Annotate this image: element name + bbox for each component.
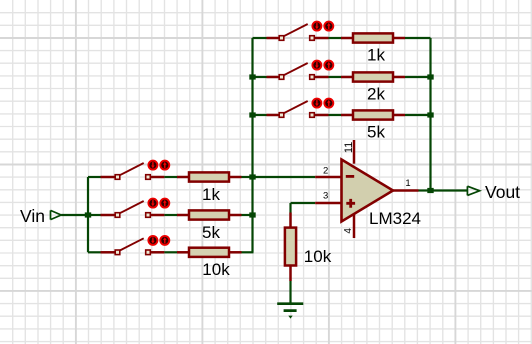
wire: SW-IN3 to R-IN3 <box>164 251 177 253</box>
pin 2 stub of op-amp U1 <box>315 176 341 179</box>
switch SW-FB3: interactive toggle button (down arrow) <box>312 99 321 108</box>
svg-text:1: 1 <box>405 178 410 189</box>
wire: input bus (left vertical) <box>87 177 89 252</box>
svg-text:5k: 5k <box>202 223 220 242</box>
pin: R-FB1 right pin <box>393 37 405 40</box>
pin: R-GND top pin <box>289 213 292 228</box>
switch SW-FB1: contacts <box>279 36 284 41</box>
pin: SW-FB1 left pin <box>267 37 280 40</box>
output terminal Vout <box>467 186 479 195</box>
switch SW-IN1: interactive toggle button (up arrow) <box>160 161 169 170</box>
wire: R-IN1 to summing bus <box>242 176 254 178</box>
junction: summing bus / Vin row <box>249 212 255 217</box>
pin: R-FB3 left pin <box>341 114 353 117</box>
resistor R-GND (10k) body, vertical <box>285 228 296 266</box>
wire: SW-IN1 to R-IN1 <box>164 176 177 178</box>
svg-text:2: 2 <box>323 165 328 176</box>
ground symbol <box>277 304 303 311</box>
switch SW-IN1: contacts <box>115 175 120 180</box>
wire: bus to SW-FB2 <box>253 76 267 78</box>
svg-text:Vout: Vout <box>485 182 520 202</box>
switch SW-IN3: lever (open, up position) <box>120 238 144 250</box>
pin: SW-FB1 right pin <box>314 37 328 40</box>
resistor R-IN2 (5k) body <box>189 210 229 219</box>
switch SW-FB2: interactive toggle button (down arrow) <box>312 61 321 70</box>
svg-text:1k: 1k <box>202 185 220 204</box>
svg-text:4: 4 <box>343 228 354 234</box>
wire: Vin terminal to input bus <box>61 214 88 216</box>
pin: SW-IN1 left pin <box>101 176 116 179</box>
switch SW-IN2: interactive toggle button (up arrow) <box>160 199 169 208</box>
wire: SW-FB3 to R-FB3 <box>329 114 342 116</box>
pin: SW-FB3 left pin <box>267 114 280 117</box>
switch SW-IN3: contacts <box>115 250 120 255</box>
svg-text:10k: 10k <box>202 260 230 279</box>
wire: R-FB1 to right bus <box>405 37 431 39</box>
pin 1 stub of op-amp U1 (output) <box>392 189 419 192</box>
pin: R-FB3 right pin <box>393 114 405 117</box>
wire: bus to SW-FB3 <box>253 114 267 116</box>
wire: summing/feedback bus (vertical at x=252) <box>251 38 253 252</box>
wire: input bus to SW-IN1 <box>88 176 101 178</box>
svg-text:Vin: Vin <box>20 206 45 226</box>
pin: SW-IN2 right pin <box>150 214 164 217</box>
switch SW-FB2: contacts <box>279 75 284 80</box>
junction: input bus / Vin <box>85 212 91 217</box>
switch SW-IN3: interactive toggle button (up arrow) <box>160 236 169 245</box>
pin: SW-FB2 left pin <box>267 76 280 79</box>
pin: SW-FB3 right pin <box>314 114 328 117</box>
wire: R-GND to ground <box>289 281 291 303</box>
pin: SW-IN3 right pin <box>150 251 164 254</box>
pin: R-IN2 left pin <box>177 214 189 217</box>
op-amp U1 plus symbol <box>346 199 355 208</box>
wire: output pin to output node <box>419 189 431 191</box>
op-amp U1 positive supply pin (pin 4, top) <box>353 140 356 164</box>
switch SW-FB1: interactive toggle button (down arrow) <box>312 22 321 31</box>
wire: bus to SW-FB1 <box>253 37 267 39</box>
svg-text:5k: 5k <box>367 123 385 142</box>
switch SW-IN1: lever (open, up position) <box>120 163 144 175</box>
switch SW-FB2: interactive toggle button (up arrow) <box>324 61 333 70</box>
wire: R-FB2 to right bus <box>405 76 431 78</box>
switch SW-FB1: lever (open, up position) <box>284 24 308 36</box>
resistor R-FB1 (1k) body <box>353 33 393 42</box>
junction: summing node (pin 2) <box>249 174 255 179</box>
switch SW-FB3: contacts <box>279 113 284 118</box>
switch SW-IN2: interactive toggle button (down arrow) <box>148 199 157 208</box>
pin: R-FB1 left pin <box>341 37 353 40</box>
pin 3 stub of op-amp U1 <box>315 202 341 205</box>
switch SW-IN2: lever (open, up position) <box>120 201 144 213</box>
wire: feedback right bus (vertical at x=430) <box>429 38 431 191</box>
junction: feedback bus / 2k branch <box>249 74 255 79</box>
wire: pin3 node down to resistor R-GND <box>289 203 291 213</box>
svg-text:LM324: LM324 <box>369 209 421 228</box>
junction: right bus / 2k branch <box>427 74 433 79</box>
pin: SW-IN3 left pin <box>101 251 116 254</box>
junction: output node <box>427 188 433 193</box>
switch SW-FB2: lever (open, up position) <box>284 63 308 75</box>
svg-text:2k: 2k <box>367 85 385 104</box>
resistor R-FB2 (2k) body <box>353 72 393 81</box>
pin: R-FB2 left pin <box>341 76 353 79</box>
wire: summing bus to op-amp inverting input (pin 2) <box>253 176 316 178</box>
pin: R-GND bottom pin <box>289 266 292 282</box>
switch SW-IN3: interactive toggle button (down arrow) <box>148 236 157 245</box>
pin: SW-IN2 left pin <box>101 214 116 217</box>
svg-text:11: 11 <box>343 142 355 153</box>
wire: SW-FB1 to R-FB1 <box>329 37 342 39</box>
wire: R-FB3 to right bus <box>405 114 431 116</box>
resistor R-IN1 (1k) body <box>189 172 229 181</box>
input terminal Vin <box>51 210 62 219</box>
resistor R-IN3 (10k) body <box>189 248 229 257</box>
pin: R-FB2 right pin <box>393 76 405 79</box>
wire: R-IN2 to summing bus <box>242 214 254 216</box>
pin: R-IN1 right pin <box>229 176 242 179</box>
switch SW-FB3: lever (open, up position) <box>284 101 308 113</box>
pin: R-IN2 right pin <box>229 214 242 217</box>
pin: SW-IN1 right pin <box>150 176 164 179</box>
switch SW-FB1: interactive toggle button (up arrow) <box>324 22 333 31</box>
op-amp U1 minus symbol <box>346 175 354 178</box>
wire: non-inverting node to op-amp pin 3 <box>291 202 316 204</box>
wire: input bus to SW-IN2 <box>88 214 101 216</box>
junction: feedback bus / 5k branch <box>249 112 255 117</box>
op-amp U1 negative supply pin (pin 11, bottom) <box>353 214 356 238</box>
op-amp U1 body (LM324) <box>342 160 394 222</box>
wire: SW-IN2 to R-IN2 <box>164 214 177 216</box>
resistor R-FB3 (5k) body <box>353 110 393 119</box>
svg-text:3: 3 <box>323 190 328 201</box>
wire: output node to Vout terminal <box>431 189 468 191</box>
junction: right bus / 5k branch <box>427 112 433 117</box>
wire: input bus to SW-IN3 <box>88 251 101 253</box>
wire: R-IN3 to summing bus <box>242 251 254 253</box>
pin: R-IN3 left pin <box>177 251 189 254</box>
pin: SW-FB2 right pin <box>314 76 328 79</box>
wire: SW-FB2 to R-FB2 <box>329 76 342 78</box>
switch SW-IN2: contacts <box>115 213 120 218</box>
svg-text:10k: 10k <box>304 247 332 266</box>
switch SW-IN1: interactive toggle button (down arrow) <box>148 161 157 170</box>
pin: R-IN1 left pin <box>177 176 189 179</box>
svg-text:1k: 1k <box>367 46 385 65</box>
switch SW-FB3: interactive toggle button (up arrow) <box>324 99 333 108</box>
pin: R-IN3 right pin <box>229 251 242 254</box>
